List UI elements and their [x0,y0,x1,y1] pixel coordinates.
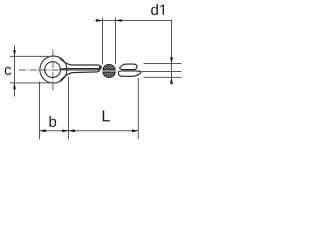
extension line middle [142,71,182,73]
label L [103,110,110,121]
c extension line top [10,55,53,57]
upper loop half [120,64,137,70]
c dimension line [14,46,16,97]
upper half section [103,64,115,70]
arrow down at top [170,57,173,63]
b extension line right [68,77,70,139]
tip bevel fill [99,65,101,68]
extension line bottom [144,76,182,78]
L arrow left [69,129,75,132]
b arrow left [40,129,46,132]
b extension line left [39,82,41,140]
prong top outline [60,58,102,68]
c arrow top [13,50,16,56]
eye inner circle [45,62,61,78]
L dimension line [69,130,139,132]
L extension line right [137,78,139,139]
lower half section [103,72,115,78]
extension line top [144,63,182,65]
L arrow right [132,129,138,132]
d1 arrow at right extension [116,19,122,22]
prong seam lower inner curve [59,68,100,71]
label b [49,116,56,127]
label d1 [151,4,164,15]
b arrow right [62,129,68,132]
c arrow bottom [13,83,16,89]
c extension line bottom [10,82,53,84]
d1 dimension + leader line [95,21,171,85]
d1 extension line left [102,18,104,65]
eye outer circle [40,56,67,83]
b dimension line [40,130,69,132]
prong seam upper inner curve [59,68,101,69]
arrow up at bottom [170,77,173,83]
d1 extension line right [115,18,117,65]
d1 arrow at left extension [96,19,102,22]
label c [5,67,11,75]
prong bottom outline [60,70,100,81]
lower loop half [118,71,141,76]
eye horizontal centerline [19,69,71,71]
prong tip notch [98,69,100,70]
eye vertical centerline [52,50,54,91]
